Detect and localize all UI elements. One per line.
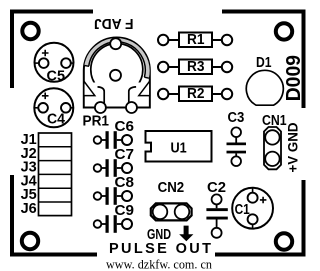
svg-text:+V GND: +V GND — [284, 123, 300, 173]
potentiometer PR1 inner circle arc — [91, 43, 143, 86]
capacitor C1 polarity plus — [260, 197, 267, 204]
potentiometer PR1 bottom-right pad — [126, 102, 137, 113]
capacitor C1 body — [232, 188, 273, 229]
svg-text:U1: U1 — [171, 141, 187, 157]
svg-text:F ADJ: F ADJ — [94, 15, 134, 31]
svg-text:R2: R2 — [187, 86, 205, 102]
connector CN2 outline — [151, 203, 192, 220]
resistor R1 — [158, 33, 232, 48]
capacitor C2 — [206, 194, 227, 237]
capacitor C6 — [94, 131, 132, 149]
connector CN1 outline — [264, 127, 281, 169]
capacitor C5 polarity plus — [42, 50, 49, 57]
svg-text:C9: C9 — [115, 203, 135, 219]
board outline left lower segment — [10, 175, 14, 257]
svg-text:R3: R3 — [187, 59, 205, 75]
potentiometer PR1 dial arc end ticks — [84, 65, 149, 78]
board outline top-left horizontal segment — [10, 10, 93, 14]
GND arrow — [179, 226, 193, 242]
capacitor C4 body — [34, 88, 73, 127]
board outline bottom-right segment — [215, 253, 306, 257]
svg-text:CN2: CN2 — [158, 180, 185, 196]
potentiometer PR1 gray dial arc — [87, 40, 148, 77]
connector CN1 pin 2 — [265, 152, 279, 166]
svg-text:C6: C6 — [115, 119, 135, 135]
capacitor C8 — [94, 187, 132, 205]
svg-text:C3: C3 — [228, 110, 245, 126]
board outline top-right horizontal segment — [222, 10, 306, 14]
potentiometer PR1 top pad — [110, 38, 121, 49]
svg-text:C5: C5 — [47, 69, 66, 85]
svg-text:C4: C4 — [47, 112, 65, 128]
svg-text:PULSE OUT: PULSE OUT — [109, 241, 211, 257]
svg-text:J6: J6 — [21, 201, 37, 217]
op-amp U1 outline with pin-1 notch — [146, 131, 212, 162]
board outline left upper segment — [10, 10, 14, 89]
mounting hole bottom-right — [276, 233, 292, 249]
potentiometer PR1 bottom-left pad — [95, 102, 106, 113]
potentiometer PR1 neck window left edge — [98, 87, 105, 108]
svg-text:R1: R1 — [187, 32, 205, 48]
svg-text:CN1: CN1 — [262, 113, 287, 129]
connector CN1 pin 1 — [265, 130, 279, 144]
potentiometer PR1 body arch — [84, 38, 150, 108]
svg-text:C7: C7 — [115, 147, 135, 163]
capacitor C7 — [94, 159, 132, 177]
svg-text:PR1: PR1 — [83, 114, 110, 130]
potentiometer PR1 right wing triangle — [139, 81, 150, 96]
svg-text:C8: C8 — [115, 175, 135, 191]
diode D1 body — [246, 70, 283, 105]
capacitor C5 body — [35, 43, 74, 82]
svg-text:D1: D1 — [256, 55, 272, 71]
mounting hole bottom-left — [22, 233, 38, 249]
potentiometer PR1 wiper pad — [110, 70, 121, 81]
svg-text:C2: C2 — [207, 180, 226, 196]
board outline right lower segment — [302, 180, 306, 257]
potentiometer PR1 neck window right edge — [129, 87, 136, 108]
board outline bottom-left segment — [10, 253, 97, 257]
svg-text:C1: C1 — [235, 202, 250, 218]
svg-text:www. dzkfw. com. cn: www. dzkfw. com. cn — [106, 258, 213, 271]
potentiometer PR1 left wing triangle — [84, 81, 95, 96]
potentiometer PR1 skirt — [84, 83, 150, 108]
resistor R2 — [158, 87, 232, 102]
mounting hole top-right — [276, 23, 292, 39]
capacitor C3 — [227, 127, 247, 166]
board outline right upper segment — [302, 10, 306, 109]
svg-text:D009: D009 — [282, 55, 305, 101]
capacitor C4 polarity plus — [42, 93, 49, 100]
potentiometer PR1 dial arc inner edge — [89, 42, 146, 77]
connector CN2 pin 1 — [153, 205, 168, 220]
connector CN2 pin 2 — [175, 205, 190, 220]
capacitor C9 — [94, 215, 132, 233]
mounting hole top-left — [22, 23, 38, 39]
resistor R3 — [158, 60, 232, 75]
jumper header J1-J6 frame — [39, 133, 72, 216]
